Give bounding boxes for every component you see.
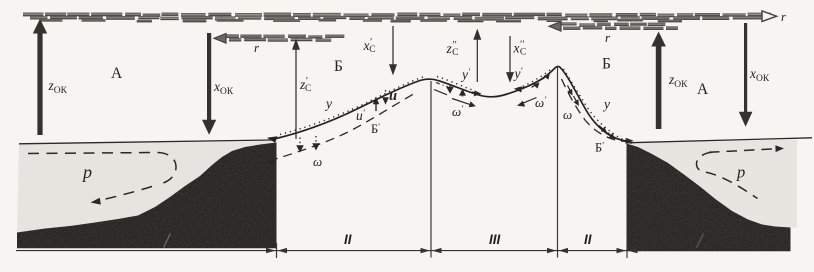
svg-text:ω: ω — [313, 154, 322, 169]
left arrow on curve in saddle — [514, 86, 522, 92]
svg-text:III: III — [489, 232, 501, 247]
dotted down arrow u — [385, 90, 387, 99]
thin arrow x''_C — [507, 36, 513, 81]
arrowhead at curve start — [267, 136, 278, 143]
dark terrain left — [17, 143, 277, 249]
baseline dimension line — [16, 250, 640, 252]
svg-text:Б: Б — [602, 56, 611, 73]
chevrons up-right on left face of peak2 — [532, 84, 537, 87]
vertical line at x=431 — [430, 81, 432, 258]
diagonal arrow below saddle right — [522, 98, 537, 104]
top boundary hatched wall with arrow r — [23, 13, 771, 23]
dash-dot line above curve right of peak1 — [436, 83, 448, 88]
free surface curve — [272, 66, 628, 141]
thin arrow x'_C — [390, 26, 396, 74]
svg-text:y: y — [324, 96, 332, 111]
thick arrow z_OK right — [651, 32, 666, 130]
dotted down arrow in saddle left — [449, 86, 451, 90]
faint numeral I left — [164, 234, 171, 248]
thick arrow z_OK left — [33, 19, 47, 135]
tick below x=276 — [276, 243, 278, 258]
thin arrow z'_C — [293, 41, 299, 140]
dotted down arrow omega 2 — [315, 136, 317, 145]
dotted line right of peak1 — [437, 77, 474, 91]
p recirculation loop left — [28, 153, 176, 185]
svg-text:II: II — [584, 232, 592, 247]
p recirculation loop right — [709, 149, 775, 153]
dimension arrowheads — [266, 248, 276, 253]
right arrow on curve in saddle — [472, 91, 476, 94]
tick at x=627 — [626, 243, 628, 258]
up arrow u' — [375, 101, 377, 111]
svg-text:p: p — [736, 163, 745, 182]
thin diagonal below peak1 right — [434, 90, 447, 95]
svg-text:Б: Б — [334, 58, 343, 75]
arrowhead left end of B' dashed — [265, 159, 276, 166]
up arrow in saddle left — [462, 93, 464, 97]
dotted line right of peak2 — [564, 69, 633, 144]
right water wash region — [627, 140, 797, 228]
svg-text:ω: ω — [563, 107, 572, 122]
svg-text:u: u — [389, 88, 397, 104]
dotted line left of peak2 — [518, 68, 553, 89]
thick arrow x_OK right — [739, 23, 753, 127]
dotted line above curve left slope — [280, 77, 423, 135]
dotted down arrow omega 1 — [299, 138, 301, 148]
hatched arrow r (right, pointing left) — [559, 22, 678, 30]
water surface line left — [19, 140, 272, 144]
svg-text:II: II — [344, 232, 352, 247]
terrain speckle — [17, 143, 791, 252]
vertical line at x=558 — [557, 67, 559, 258]
thin arrow z''_C — [474, 31, 480, 83]
water surface line right — [627, 138, 812, 143]
svg-text:А: А — [697, 81, 709, 98]
diagonal arrow below saddle left — [452, 99, 471, 105]
svg-text:А: А — [111, 65, 123, 82]
svg-text:p: p — [81, 162, 92, 182]
thick arrow x_OK left — [202, 33, 216, 135]
chevrons on right slope of peak2 — [568, 86, 571, 92]
dark terrain right — [627, 144, 791, 252]
left water wash region — [17, 141, 277, 233]
faint numeral I right — [697, 234, 704, 248]
dashed B' line left slope — [269, 92, 417, 161]
hatched arrow r (left, pointing left) — [225, 34, 344, 41]
svg-text:r: r — [781, 10, 786, 24]
svg-text:y: y — [602, 97, 610, 112]
dashed B' line right slope with arrow — [562, 79, 627, 142]
